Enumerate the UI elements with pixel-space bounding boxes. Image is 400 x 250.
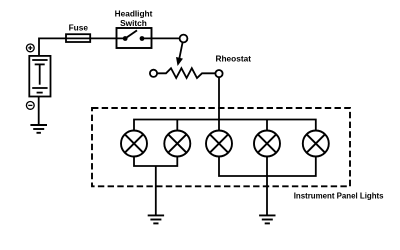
svg-text:Rheostat: Rheostat bbox=[216, 53, 252, 63]
svg-text:Fuse: Fuse bbox=[69, 23, 89, 33]
svg-text:Instrument Panel Lights: Instrument Panel Lights bbox=[294, 192, 384, 201]
svg-text:Switch: Switch bbox=[120, 18, 147, 28]
